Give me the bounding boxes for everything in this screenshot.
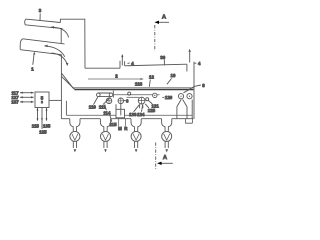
roller c2 with label 6 xyxy=(118,98,124,104)
label 4 (left port) xyxy=(128,62,130,64)
label 4 (right port) xyxy=(194,62,196,64)
curved flow arrow in pipe 3 xyxy=(51,26,69,38)
section line A-A top dash-dot xyxy=(154,25,156,51)
pipe 1 lower inlet duct xyxy=(20,39,64,55)
leader 8 to circle A xyxy=(184,87,194,93)
duct top edge to right step xyxy=(125,64,187,66)
label 30 leader xyxy=(163,60,165,66)
duct bottom edge right of chamber xyxy=(85,67,120,69)
label 8 leader xyxy=(194,85,201,87)
svg-text:124: 124 xyxy=(137,112,145,117)
curved arrow turning down into channel xyxy=(52,53,69,66)
machine bottom edge segments xyxy=(61,118,193,120)
svg-text:110: 110 xyxy=(89,105,97,110)
IO arrows left of box 5 xyxy=(20,92,34,103)
machine left wall xyxy=(65,101,67,116)
sliver can outlet 3 xyxy=(131,119,141,153)
label 3 leader xyxy=(39,14,41,22)
label 1 leader arrow xyxy=(33,54,34,65)
sliver can outlet 2 xyxy=(100,119,110,153)
svg-text:12: 12 xyxy=(149,74,154,79)
roller c1 xyxy=(106,98,112,104)
svg-text:123: 123 xyxy=(135,81,143,86)
sliver can outlet 4 xyxy=(162,119,172,153)
end plate circle A xyxy=(178,94,183,99)
roller c3 xyxy=(138,97,148,104)
svg-text:121: 121 xyxy=(152,103,160,108)
svg-text:135: 135 xyxy=(43,123,51,128)
label 111 leader xyxy=(103,97,110,104)
machine right wall xyxy=(193,62,195,119)
svg-text:M: M xyxy=(118,126,122,131)
flow arrow 2 in duct (gray) xyxy=(88,78,144,81)
suction port 4 (right) arrow xyxy=(189,49,191,63)
label 110 leader xyxy=(94,97,98,105)
pipe 3 upper inlet duct xyxy=(25,19,63,29)
label 114 leader xyxy=(105,104,107,110)
sliver can outlet 1 xyxy=(70,119,80,153)
label 12 leader xyxy=(149,80,150,87)
label 10 leader xyxy=(167,78,172,84)
chamber hood top box xyxy=(60,19,85,68)
end plate circle B xyxy=(187,94,192,99)
suction port 4 (left) xyxy=(120,55,125,69)
feed belt (slot) xyxy=(97,93,113,97)
section arrow A top xyxy=(154,21,169,24)
chute diagonal double wall xyxy=(62,73,75,89)
label 121 leader xyxy=(148,100,152,104)
label 124 leader xyxy=(142,105,143,112)
label 115m leader xyxy=(109,114,112,122)
wire box5 to machine xyxy=(49,99,61,101)
svg-text:30: 30 xyxy=(160,55,165,60)
svg-text:115: 115 xyxy=(32,123,40,128)
svg-text:125: 125 xyxy=(148,108,156,113)
svg-text:125: 125 xyxy=(39,129,47,134)
svg-text:137: 137 xyxy=(11,100,19,105)
control unit box 5 xyxy=(35,92,49,108)
chamber left wall lower xyxy=(60,55,62,119)
gear boxes below c2 xyxy=(116,104,125,118)
small box 120 xyxy=(153,93,157,97)
partition line xyxy=(112,91,114,98)
end legs xyxy=(177,99,193,123)
section arrow A bottom xyxy=(157,162,173,165)
label 130 leader xyxy=(134,105,140,112)
section line A-A bottom dash-dot xyxy=(155,143,157,171)
label 125m leader xyxy=(145,104,149,108)
small parts below c3 xyxy=(140,104,143,108)
machine top double line xyxy=(73,88,194,90)
svg-text:120: 120 xyxy=(165,95,173,100)
svg-text:130: 130 xyxy=(129,112,137,117)
curved flow arrow in pipe 1 xyxy=(44,45,65,57)
svg-text:10: 10 xyxy=(171,73,176,78)
arrows below box 5 xyxy=(37,108,48,130)
step up at right xyxy=(186,64,188,71)
